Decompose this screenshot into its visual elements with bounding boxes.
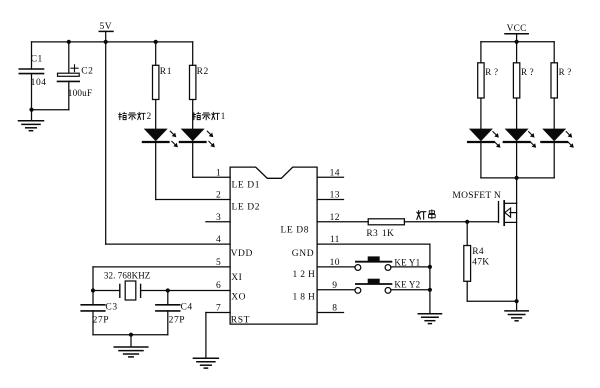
- ground MOSFET source: [516, 301, 518, 311]
- capacitor C3: [92, 291, 94, 305]
- svg-text:KE Y2: KE Y2: [394, 280, 420, 290]
- svg-text:C2: C2: [81, 66, 93, 76]
- resistor R? #1: [480, 42, 482, 63]
- wire LED cathode: [480, 142, 482, 178]
- svg-text:LE D8: LE D8: [281, 225, 310, 235]
- resistor R2: [192, 42, 194, 65]
- LED arrows: [493, 132, 498, 137]
- ground keys: [418, 313, 441, 315]
- LED arrows: [170, 131, 175, 136]
- svg-text:LE D2: LE D2: [232, 203, 261, 213]
- wire crystal left: [93, 290, 120, 292]
- LED lamp #1: [469, 129, 493, 142]
- node C2 tap: [67, 40, 71, 44]
- LED arrows: [566, 132, 571, 137]
- svg-text:104: 104: [31, 78, 47, 88]
- label 指示灯1: [193, 112, 201, 119]
- wire pin12 to R3: [317, 221, 368, 223]
- node KEY1: [428, 265, 432, 269]
- wire 5V rail: [32, 41, 193, 43]
- svg-text:6: 6: [216, 281, 221, 291]
- svg-text:1 2 H: 1 2 H: [293, 270, 316, 280]
- svg-text:47K: 47K: [472, 258, 489, 268]
- svg-text:R3: R3: [366, 229, 378, 239]
- node R4 tap: [465, 220, 469, 224]
- wire C1-C2 bottom join: [32, 109, 69, 111]
- pin 3 stub: [206, 221, 230, 223]
- svg-text:C3: C3: [105, 303, 117, 313]
- wire pin7 RST: [206, 312, 230, 314]
- svg-text:R1: R1: [160, 67, 172, 77]
- resistor R? #3: [553, 42, 555, 63]
- IC U1 LE D8 body: [230, 167, 317, 324]
- node C4 tap: [166, 288, 170, 292]
- node crystal left: [91, 288, 95, 292]
- wire R3 to MOSFET gate: [404, 221, 498, 223]
- svg-text:1K: 1K: [382, 229, 394, 239]
- node drain: [515, 176, 519, 180]
- svg-text:27P: 27P: [93, 316, 110, 326]
- svg-text:XI: XI: [231, 273, 242, 283]
- label 灯串: [417, 211, 426, 220]
- wire pin11 to key rail: [317, 243, 430, 245]
- svg-text:R ?: R ?: [521, 67, 534, 77]
- pushbutton KEY2: [317, 289, 355, 291]
- ground C1-C2: [31, 110, 33, 121]
- svg-text:LE D1: LE D1: [232, 181, 261, 191]
- wire R4 to source: [467, 300, 516, 302]
- svg-text:R2: R2: [197, 67, 209, 77]
- wire XI pin5 to crystal: [93, 266, 230, 268]
- wire VCC rail: [481, 41, 554, 43]
- svg-text:R4: R4: [472, 247, 484, 257]
- svg-text:4: 4: [216, 235, 221, 245]
- svg-text:KE Y1: KE Y1: [394, 257, 420, 267]
- wire crystal caps bottom: [93, 334, 168, 336]
- svg-text:2: 2: [147, 111, 152, 121]
- LED indicator 2: [144, 129, 168, 142]
- node source-ground: [515, 299, 519, 303]
- node C1-C2 junction: [29, 108, 33, 112]
- node 5V stem: [104, 40, 108, 44]
- wire 5V to VDD pin4: [105, 42, 107, 244]
- pin 13 stub: [317, 199, 343, 201]
- svg-text:R ?: R ?: [559, 67, 572, 77]
- svg-text:27P: 27P: [169, 316, 186, 326]
- node VCC stem: [515, 40, 519, 44]
- resistor R3 1K: [368, 219, 404, 225]
- ground RST: [193, 357, 218, 359]
- wire LED2 to pin1: [192, 142, 194, 177]
- LED arrows: [529, 132, 534, 137]
- capacitor C1: [31, 42, 33, 69]
- svg-text:1: 1: [216, 168, 221, 178]
- crystal Y1 32.768KHZ: [119, 284, 121, 297]
- ground crystal: [130, 335, 132, 347]
- svg-text:GND: GND: [292, 249, 314, 259]
- svg-text:RST: RST: [231, 316, 250, 326]
- svg-text:MOSFET N: MOSFET N: [452, 191, 501, 201]
- wire LED cathode: [516, 142, 518, 178]
- svg-text:VCC: VCC: [507, 24, 527, 34]
- svg-text:32. 768KHZ: 32. 768KHZ: [104, 271, 150, 281]
- svg-text:C1: C1: [31, 54, 43, 64]
- LED lamp #3: [542, 129, 566, 142]
- pin 14 stub: [317, 176, 343, 178]
- wire crystal right to XO pin6: [141, 290, 231, 292]
- label 指示灯2: [119, 112, 127, 119]
- wire LED bottom rail: [481, 177, 554, 179]
- node crystal ground: [129, 333, 133, 337]
- pushbutton KEY1: [317, 266, 355, 268]
- svg-text:XO: XO: [231, 293, 246, 303]
- svg-text:1: 1: [221, 111, 226, 121]
- resistor R4 47K: [466, 222, 468, 246]
- svg-text:C4: C4: [181, 303, 193, 313]
- node KEY2: [428, 288, 432, 292]
- LED arrows: [207, 131, 212, 136]
- capacitor C2: [68, 42, 70, 73]
- pin 8 stub: [317, 312, 343, 314]
- capacitor C4: [167, 291, 169, 305]
- svg-text:2: 2: [216, 191, 221, 201]
- resistor R1: [155, 42, 157, 65]
- wire KEY2 to rail: [391, 289, 430, 291]
- svg-text:R ?: R ?: [485, 67, 498, 77]
- LED lamp #2: [505, 129, 529, 142]
- wire LED1 to pin2: [155, 142, 157, 200]
- svg-text:100uF: 100uF: [68, 88, 93, 98]
- wire KEY1 to rail: [391, 266, 430, 268]
- transistor MOSFET N: [516, 178, 518, 203]
- svg-text:VDD: VDD: [231, 249, 253, 259]
- LED indicator 1: [181, 129, 205, 142]
- node R1 tap: [154, 40, 158, 44]
- svg-text:1 8 H: 1 8 H: [293, 293, 316, 303]
- resistor R? #2: [516, 42, 518, 63]
- wire LED cathode: [553, 142, 555, 178]
